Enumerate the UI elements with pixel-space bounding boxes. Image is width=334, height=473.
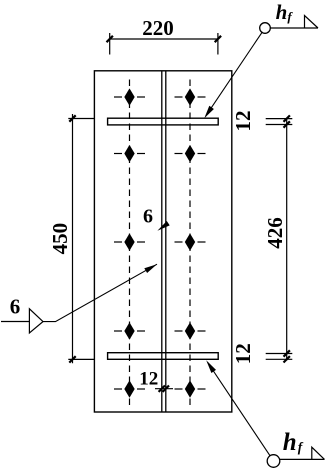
- svg-text:6: 6: [10, 295, 21, 319]
- web line right: [165, 71, 167, 412]
- tick 12 top b: [284, 121, 290, 127]
- arrowhead leader 6: [144, 264, 157, 273]
- tick 220 left: [107, 36, 113, 42]
- tick web right: [163, 386, 169, 392]
- bolt B1 row1 left: [124, 88, 134, 105]
- svg-text:f: f: [287, 9, 293, 24]
- leader hf top to splice bar: [206, 32, 262, 116]
- arrow 6 upper: [157, 221, 169, 231]
- bolt cross dashes row1: [114, 96, 206, 98]
- svg-text:h: h: [276, 0, 288, 24]
- bolt cross dashes row3: [114, 241, 206, 243]
- weld symbol 6 left: triangle: [29, 309, 43, 333]
- svg-text:f: f: [298, 440, 304, 455]
- bolt B3 row2 left: [124, 145, 134, 162]
- bolt centerline right (dashed): [189, 80, 191, 406]
- plate outline: [94, 71, 231, 412]
- dimension 450 left: [68, 114, 94, 363]
- weld symbol hf bottom: reference line: [280, 458, 325, 460]
- bolt cross dashes row4: [114, 330, 206, 332]
- dimension 426 and 12/12 right: [266, 119, 293, 361]
- bolt B8 row4 right: [185, 322, 195, 339]
- dimension 220 top: [110, 33, 218, 55]
- tick 12 bottom b: [284, 356, 290, 362]
- svg-text:220: 220: [142, 16, 174, 40]
- svg-text:450: 450: [48, 223, 72, 255]
- splice bar bottom: [108, 353, 219, 360]
- weld symbol hf top: fillet flag: [305, 16, 319, 29]
- svg-text:12: 12: [231, 111, 255, 132]
- tick 450 bottom: [69, 356, 75, 362]
- tick web left: [159, 386, 165, 392]
- leader from weld 6 to web: [43, 264, 157, 321]
- bolt B10 row5 right: [185, 380, 195, 397]
- weld symbol hf bottom: fillet flag: [312, 447, 325, 459]
- svg-text:6: 6: [143, 206, 153, 228]
- weld symbol 6 left: tail line: [1, 321, 29, 323]
- tick 220 right: [215, 36, 221, 42]
- tick 12 bottom a: [284, 350, 290, 356]
- bolt B7 row4 left: [124, 322, 134, 339]
- tick 12 top a: [284, 115, 290, 121]
- bolt cross dashes row5: [114, 388, 206, 390]
- web line left: [161, 71, 163, 412]
- weld symbol hf top: reference line: [270, 27, 318, 29]
- splice bar top: [108, 118, 219, 125]
- svg-text:12: 12: [139, 369, 158, 390]
- bolt cross dashes row2: [114, 153, 206, 155]
- svg-text:h: h: [283, 429, 297, 456]
- arrowhead hf top: [204, 106, 214, 118]
- svg-text:12: 12: [231, 343, 255, 364]
- bolt B4 row2 right: [185, 145, 195, 162]
- leader hf bottom to splice bar: [208, 363, 270, 456]
- bolt B9 row5 left: [124, 380, 134, 397]
- svg-text:426: 426: [263, 217, 287, 249]
- bolt B6 row3 right: [185, 233, 195, 250]
- bolt centerline left (dashed): [129, 80, 131, 406]
- dimension 12 web bottom: [155, 388, 173, 390]
- arrowhead hf bottom: [206, 360, 216, 373]
- weld symbol hf top: circle: [260, 23, 271, 34]
- weld symbol hf bottom: circle: [267, 455, 280, 468]
- bolt B2 row1 right: [185, 88, 195, 105]
- tick 450 top: [69, 115, 75, 121]
- bolt B5 row3 left: [124, 233, 134, 250]
